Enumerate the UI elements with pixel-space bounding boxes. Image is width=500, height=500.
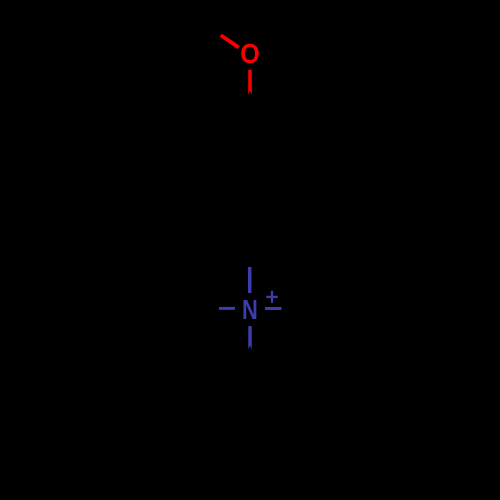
svg-text:N: N xyxy=(242,294,258,325)
bond N1-C5 (blue half, vertical below N) xyxy=(248,326,252,349)
joint notch at N1-C5 bond midpoint xyxy=(248,346,251,350)
svg-text:O: O xyxy=(240,38,260,69)
bond C4-N1 (blue half, vertical above N) xyxy=(248,267,252,293)
bond N1-CH3 right (blue half, horizontal) xyxy=(265,307,282,310)
bond O1-C1 (red half, vertical below O) xyxy=(248,70,252,94)
joint notch at O1-C1 bond midpoint xyxy=(248,91,251,95)
charge plus sign on N1 xyxy=(266,291,278,303)
bond N1-CH3 left (blue half, horizontal) xyxy=(219,307,235,310)
bond CH3-O (red half of methyl-oxygen bond) xyxy=(221,35,239,47)
